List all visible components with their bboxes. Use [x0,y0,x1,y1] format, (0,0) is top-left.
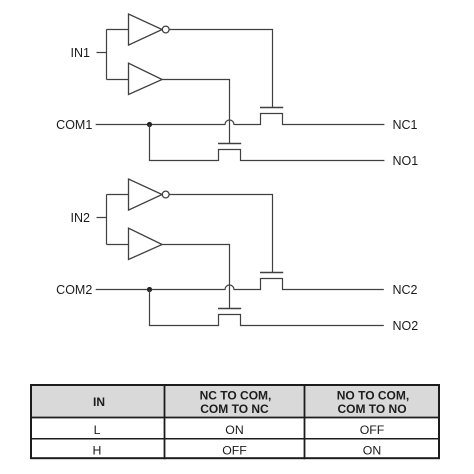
wire COM2 junction to NO2 with transistor M4 channel bump [150,290,384,326]
truth table column line 1 [164,384,166,459]
transistor M1 (NC1 switch) gate bar [260,107,283,109]
svg-text:NO1: NO1 [393,154,419,168]
wire COM1 junction to NO1 with transistor M2 channel bump [150,125,385,161]
truth table header fill [31,385,439,418]
svg-text:NO2: NO2 [393,319,419,333]
wire IN1 vertical branch [106,30,108,80]
svg-text:NC TO COM,: NC TO COM, [200,389,272,403]
node NC1 label [393,118,418,132]
transistor M2 (NO1 switch) gate bar [218,143,241,145]
svg-text:COM2: COM2 [56,283,92,297]
svg-text:IN: IN [93,395,105,409]
wire to inverter U1A input [107,29,129,31]
wire IN1 stub [97,52,107,54]
wire IN2 stub [97,217,107,219]
wire buffer U1B output to NO1 gate [162,80,229,144]
inverter U2A (triangle) [129,179,163,210]
node IN2 label [71,211,91,225]
buffer U1B (triangle) [129,63,163,94]
node NO2 label [393,319,419,333]
svg-text:NC1: NC1 [393,118,418,132]
node IN1 label [71,46,91,60]
truth table header NC TO COM, COM TO NC [200,389,272,416]
truth table outer border [31,385,439,458]
truth table column line 2 [304,384,306,459]
junction node on COM2 [147,287,152,292]
svg-text:IN1: IN1 [71,46,91,60]
transistor M3 (NC2 switch) gate bar [260,272,283,274]
truth table row separator [30,438,440,440]
svg-text:H: H [93,443,102,457]
svg-text:COM1: COM1 [56,118,92,132]
node NO1 label [393,154,419,168]
inverter U1A (triangle) [129,14,163,45]
svg-text:OFF: OFF [360,423,385,437]
truth table header bottom line [30,417,440,419]
node COM1 label [56,118,92,132]
svg-text:ON: ON [363,443,381,457]
truth table header NO TO COM, COM TO NO [337,389,409,416]
svg-text:COM TO NC: COM TO NC [200,402,269,416]
inverter U2A output bubble [162,191,169,198]
truth table row L [94,423,385,437]
truth table row H [93,443,382,457]
truth table header IN [93,395,105,409]
wire COM1 line with crossover hop and transistor M1 channel bump to NC1 [96,114,385,125]
svg-text:ON: ON [225,423,243,437]
svg-text:NO TO COM,: NO TO COM, [337,389,409,403]
node COM2 label [56,283,92,297]
buffer U2B (triangle) [129,228,163,259]
wire buffer U2B output to NO2 gate [162,245,229,309]
junction node on COM1 [147,122,152,127]
svg-text:OFF: OFF [222,443,247,457]
node NC2 label [393,283,418,297]
inverter U1A output bubble [162,26,169,33]
wire to buffer U2B input [107,244,129,246]
transistor M4 (NO2 switch) gate bar [218,308,241,310]
wire inverter U2A output to NC2 gate [169,195,272,273]
wire to inverter U2A input [107,194,129,196]
svg-text:L: L [94,423,101,437]
wire IN2 vertical branch [106,195,108,245]
wire COM2 line with crossover hop and transistor M3 channel bump to NC2 [96,279,384,290]
svg-text:IN2: IN2 [71,211,91,225]
wire inverter U1A output to NC1 gate [169,30,272,108]
svg-text:NC2: NC2 [393,283,418,297]
wire to buffer U1B input [107,79,129,81]
svg-text:COM TO NO: COM TO NO [337,402,406,416]
